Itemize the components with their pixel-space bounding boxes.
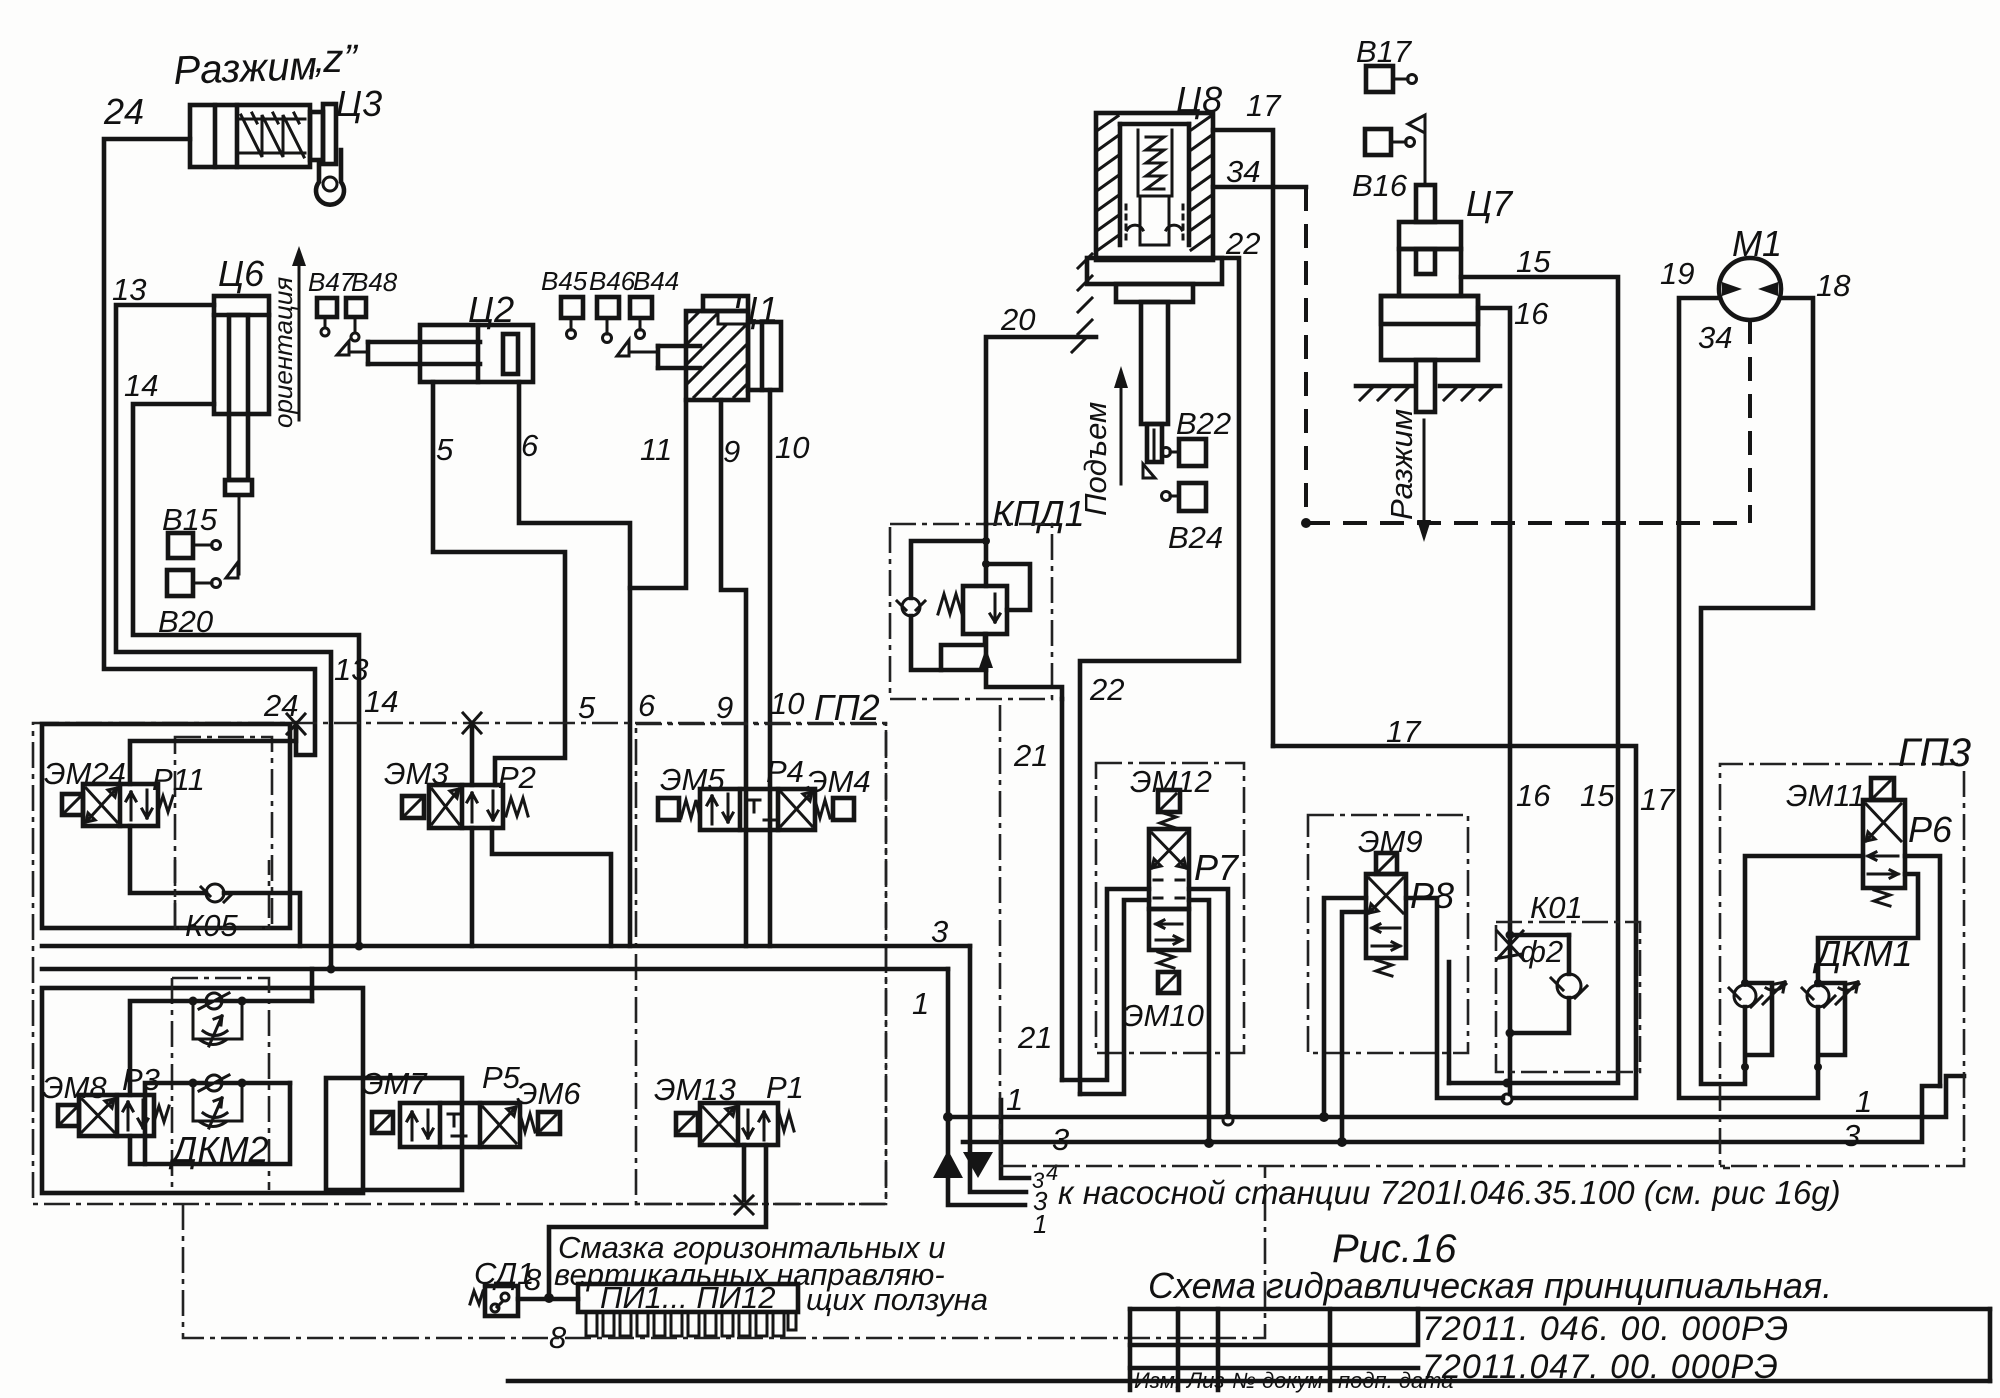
node X R1 <box>735 1196 753 1214</box>
wire 20 <box>986 337 1096 524</box>
contact flag C7 rod <box>1408 115 1425 185</box>
node DKM2 lower <box>189 1079 198 1088</box>
wire 34 dashed from M1 <box>1748 320 1752 523</box>
node <box>982 537 990 545</box>
svg-text:9: 9 <box>723 434 740 469</box>
throttle F2 <box>1497 931 1523 959</box>
svg-text:Р8: Р8 <box>1410 875 1454 916</box>
box KPD1 dash-dot <box>890 524 1052 699</box>
contact flag C8 rod <box>1143 430 1155 478</box>
wire 34 dashed horizontal <box>1306 521 1750 525</box>
solenoid EM13 <box>676 1113 698 1135</box>
wire 21 dash-dot vertical <box>999 705 1002 1160</box>
box DKM2 dash-dot <box>172 978 269 1190</box>
valve R3 <box>79 1095 154 1136</box>
spring R4 right <box>815 800 830 818</box>
wire R1 right down <box>549 1145 766 1298</box>
valve R4 <box>700 789 815 830</box>
cylinder C3 <box>190 105 310 167</box>
svg-text:ГП2: ГП2 <box>814 687 880 728</box>
svg-text:Ц3: Ц3 <box>336 83 382 124</box>
ground hatch C7 <box>1356 386 1500 400</box>
wire bus1 corner down <box>946 969 951 1117</box>
svg-text:ДКМ1: ДКМ1 <box>1812 933 1913 974</box>
switch B17 <box>1366 66 1417 92</box>
node X 24 <box>287 714 305 734</box>
svg-text:1: 1 <box>1855 1084 1872 1119</box>
check valve K05 <box>201 884 233 902</box>
switch B48 <box>346 298 366 341</box>
wire KPD1 left loop <box>911 541 986 670</box>
svg-text:В24: В24 <box>1168 520 1223 555</box>
box F2 K01 solid <box>1447 962 1452 1083</box>
spring R7 bottom <box>1158 952 1174 968</box>
wire R8 left loop <box>1324 898 1366 1117</box>
svg-text:В46: В46 <box>589 266 636 296</box>
throttle-check DKM1 right <box>1802 982 1859 1007</box>
box P7 dash-dot <box>1096 763 1244 1053</box>
node DKM1 bottoms <box>1741 1063 1749 1071</box>
wire R11 bottom to K05 <box>130 826 206 893</box>
svg-text:В16: В16 <box>1352 168 1408 203</box>
svg-text:ЭМ5: ЭМ5 <box>660 762 725 797</box>
svg-text:Р4: Р4 <box>766 754 804 789</box>
node bus1 <box>943 1112 953 1122</box>
svg-text:Р5: Р5 <box>482 1060 521 1095</box>
svg-text:24: 24 <box>103 91 144 132</box>
wire R2 bottom loop <box>492 828 611 946</box>
svg-text:5: 5 <box>436 432 454 467</box>
spring R6 bottom <box>1874 890 1890 906</box>
switch B24 <box>1162 483 1207 511</box>
solenoid EM8 <box>58 1105 79 1126</box>
throttle-check DKM1 left <box>1729 976 1788 1007</box>
wire port1 <box>948 1117 1025 1205</box>
switch B44 <box>630 297 652 339</box>
wire 5 <box>433 382 565 785</box>
wire KPD1 inner lower <box>941 634 985 670</box>
svg-text:ЭМ8: ЭМ8 <box>42 1070 107 1105</box>
wire 17 horizontal <box>1273 746 1636 1098</box>
wire 16 <box>1478 308 1510 1094</box>
svg-text:В22: В22 <box>1176 406 1231 441</box>
svg-text:72011. 046. 00. 000РЭ: 72011. 046. 00. 000РЭ <box>1422 1310 1789 1348</box>
svg-text:15: 15 <box>1516 244 1551 279</box>
svg-text:21: 21 <box>1017 1020 1052 1055</box>
arrow razzhim <box>1417 420 1431 542</box>
solenoid EM24 <box>62 794 83 815</box>
cylinder C2 <box>368 325 533 382</box>
solenoid EM12 <box>1158 790 1180 812</box>
pump arrow down <box>963 1152 993 1178</box>
dash-dot separator above note <box>1000 764 1964 1166</box>
svg-text:щих ползуна: щих ползуна <box>806 1282 988 1317</box>
svg-text:Р6: Р6 <box>1908 809 1953 850</box>
svg-text:3: 3 <box>931 914 948 949</box>
svg-text:34: 34 <box>1226 154 1260 189</box>
svg-text:Разжим: Разжим <box>173 44 318 93</box>
wire 14 <box>133 404 359 946</box>
svg-text:ЭМ12: ЭМ12 <box>1130 764 1212 799</box>
wire R7 right loop outer <box>1189 889 1228 1114</box>
svg-text:10: 10 <box>770 686 804 721</box>
solenoid EM4 <box>833 798 854 820</box>
svg-text:6: 6 <box>521 428 539 463</box>
wire port34 <box>1001 1100 1029 1178</box>
pump arrow up <box>933 1150 963 1178</box>
valve R2 <box>429 785 503 828</box>
svg-text:3: 3 <box>1843 1118 1860 1153</box>
box R5 outer <box>326 1078 462 1190</box>
wire R7 left loop outer <box>1062 889 1149 1080</box>
contact flag C1 <box>617 340 658 356</box>
solenoid EM7 <box>372 1112 401 1133</box>
lubricator block PI1..PI12 <box>578 1284 798 1336</box>
wire 10 <box>768 390 773 946</box>
spring R11 <box>158 796 173 812</box>
box K01 dash-dot <box>1496 922 1640 1072</box>
switch B20 <box>167 570 221 596</box>
svg-text:„z”: „z” <box>308 37 358 81</box>
wire K01 bottom circle <box>1502 1094 1512 1104</box>
wire R2 center down <box>470 828 475 946</box>
svg-text:18: 18 <box>1816 268 1851 303</box>
svg-text:4: 4 <box>1046 1160 1058 1185</box>
svg-text:ф2: ф2 <box>1520 934 1563 969</box>
switch B46 <box>597 297 619 343</box>
svg-text:19: 19 <box>1660 256 1694 291</box>
svg-text:8: 8 <box>524 1262 542 1297</box>
box K05 dash-dot <box>175 860 269 928</box>
svg-text:20: 20 <box>1000 302 1035 337</box>
spring KPD1 <box>938 594 962 614</box>
svg-text:15: 15 <box>1580 778 1615 813</box>
wire DKM1 right branch <box>1818 983 1845 1067</box>
spring R3 <box>154 1106 169 1122</box>
box GP3 dash-dot <box>1720 764 1958 1168</box>
spring R8 bottom <box>1376 960 1392 976</box>
check valve KPD1 <box>897 598 925 616</box>
valve R11 <box>83 784 158 826</box>
svg-text:ГП3: ГП3 <box>1898 731 1971 775</box>
svg-text:1: 1 <box>912 986 929 1021</box>
bus 3 lower <box>963 1086 1940 1142</box>
switch B16 <box>1365 129 1415 155</box>
valve R5 <box>400 1103 520 1147</box>
svg-text:Р1: Р1 <box>766 1070 804 1105</box>
wire K01 inner <box>1510 935 1569 1033</box>
switch B22 <box>1162 439 1207 466</box>
arrow up on KPD1 drain <box>979 648 993 668</box>
pressure switch SD1 <box>470 1286 518 1316</box>
throttle-check DKM2 lower <box>193 1075 242 1128</box>
wire 19 <box>1679 298 1818 1098</box>
bus 1 upper <box>42 967 948 972</box>
svg-text:1: 1 <box>1006 1082 1023 1117</box>
wire R3 top port to upper throttle <box>130 1001 193 1095</box>
svg-text:16: 16 <box>1514 296 1549 331</box>
svg-text:14: 14 <box>124 368 158 403</box>
bus 3 upper <box>42 944 970 949</box>
svg-text:13: 13 <box>334 652 368 687</box>
node K01 top <box>1506 931 1515 940</box>
wire R6 left port <box>1745 856 1863 983</box>
spring R4 left <box>681 800 700 818</box>
svg-text:к насосной станции 7201l.046.3: к насосной станции 7201l.046.35.100 (см.… <box>1058 1174 1841 1211</box>
title block frame <box>1130 1309 1990 1390</box>
svg-text:В47: В47 <box>308 267 356 297</box>
wire 21 inner vertical <box>1060 699 1065 1080</box>
node 34 junction <box>1301 518 1311 528</box>
svg-text:Р3: Р3 <box>122 1062 160 1097</box>
svg-text:К01: К01 <box>1530 890 1583 925</box>
solenoid EM3 <box>402 796 424 818</box>
svg-text:22: 22 <box>1089 672 1124 707</box>
contact flag C6 rod <box>226 497 239 578</box>
wire KPD1 right loop <box>986 564 1030 610</box>
check valve K01 <box>1551 974 1587 998</box>
valve R1 <box>700 1103 778 1145</box>
wire K05 right <box>224 893 300 946</box>
svg-text:3: 3 <box>1052 1122 1069 1157</box>
cylinder C8 <box>1087 113 1222 462</box>
svg-text:ЭМ6: ЭМ6 <box>516 1076 581 1111</box>
wire 17 top <box>1213 130 1273 746</box>
solenoid EM5 <box>658 798 679 820</box>
svg-text:13: 13 <box>112 272 146 307</box>
svg-text:К05: К05 <box>185 908 239 943</box>
svg-text:6: 6 <box>638 688 656 723</box>
solenoid EM9 <box>1376 853 1397 874</box>
spring R2 <box>506 798 528 816</box>
wire SD1 to PI <box>518 1297 578 1302</box>
svg-text:Разжим: Разжим <box>1384 409 1419 520</box>
wire lower throttle left <box>145 1083 193 1164</box>
svg-text:10: 10 <box>775 430 809 465</box>
svg-text:В20: В20 <box>158 604 213 639</box>
wire 34 dashed vertical <box>1304 187 1308 523</box>
contact flag C2 <box>337 341 368 355</box>
wire 18 <box>1701 298 1813 1084</box>
svg-text:34: 34 <box>1698 320 1732 355</box>
svg-text:ЭМ11: ЭМ11 <box>1786 778 1866 813</box>
box left manifold lower <box>42 988 363 1193</box>
wire riser right of DKM2 <box>310 969 315 1001</box>
box P8 dash-dot <box>1308 815 1468 1053</box>
arrow orientacia <box>292 246 306 420</box>
svg-text:16: 16 <box>1516 778 1551 813</box>
relief valve KPD1 <box>963 586 1007 634</box>
node DKM1 tops <box>1741 979 1749 987</box>
cylinder C1 <box>658 296 781 400</box>
node X on line 5 <box>463 713 481 733</box>
spring R1 <box>779 1113 794 1131</box>
switch B45 <box>561 297 583 339</box>
solenoid EM6 <box>538 1112 560 1134</box>
svg-text:КПД1: КПД1 <box>992 493 1085 534</box>
wire R11 top to X24 <box>130 723 296 784</box>
wire upper throttle right <box>242 999 312 1004</box>
wire 34 stub <box>1213 185 1306 190</box>
arrow podem <box>1114 366 1128 484</box>
throttle-check DKM2 upper <box>193 984 242 1046</box>
svg-text:Р7: Р7 <box>1194 847 1240 888</box>
wire 20 inside KPD1 <box>986 524 1062 699</box>
solenoid EM10 <box>1158 972 1179 993</box>
dash-dot bottom tail of GP2 <box>183 1166 1265 1338</box>
wire bus3 corner down <box>970 946 1026 1192</box>
wire 22 <box>1080 258 1239 1094</box>
svg-text:9: 9 <box>716 690 733 725</box>
svg-text:17: 17 <box>1640 782 1676 817</box>
wire 24 from C3 <box>104 139 315 755</box>
svg-text:ЭМ7: ЭМ7 <box>362 1066 428 1101</box>
node DKM2 upper <box>189 997 198 1006</box>
spring R7 top <box>1160 812 1176 828</box>
wire R1 down to X <box>742 1145 747 1200</box>
valve R6 <box>1863 800 1905 888</box>
cylinder C7 <box>1381 185 1478 412</box>
box GP2 mid sub dash-dot <box>636 724 886 1204</box>
svg-text:5: 5 <box>578 690 596 725</box>
wire lower throttle right <box>242 1081 290 1086</box>
wire R7 right loop inner <box>1189 900 1209 1143</box>
box left manifold upper <box>42 724 290 928</box>
wire R3 bottom port loop <box>130 1083 290 1164</box>
svg-text:17: 17 <box>1386 714 1422 749</box>
wire 5 into P2 <box>470 723 475 785</box>
wire 11 <box>630 400 686 588</box>
svg-text:ЭМ10: ЭМ10 <box>1122 998 1204 1033</box>
svg-text:24: 24 <box>263 688 298 723</box>
cylinder C3 rod clevis <box>310 104 344 205</box>
svg-text:Ц6: Ц6 <box>218 253 265 294</box>
motor M1 <box>1719 258 1781 320</box>
svg-text:11: 11 <box>640 432 672 467</box>
wire R7 left loop inner <box>1080 900 1149 1094</box>
svg-text:В44: В44 <box>633 266 679 296</box>
cylinder C6 <box>214 296 269 495</box>
svg-text:В45: В45 <box>541 266 588 296</box>
box GP2 dash-dot boundary <box>33 723 886 1204</box>
solenoid EM11 <box>1871 778 1894 800</box>
wire 15 <box>1449 277 1618 1083</box>
wire 6 <box>519 382 630 946</box>
svg-text:Ц7: Ц7 <box>1466 183 1514 224</box>
bus 1 lower <box>948 1076 1964 1117</box>
wall hatch left of C8 <box>1072 254 1092 352</box>
svg-text:ориентация: ориентация <box>268 277 298 428</box>
wire R8 right loop <box>1406 898 1503 1098</box>
svg-text:17: 17 <box>1246 88 1282 123</box>
box P11 sub dash-dot <box>175 737 272 928</box>
wire 9 <box>721 400 746 946</box>
spring EM6 <box>520 1114 535 1132</box>
valve R7 <box>1149 829 1189 950</box>
wire 13 <box>116 305 331 969</box>
svg-text:В48: В48 <box>351 267 398 297</box>
svg-text:21: 21 <box>1013 738 1048 773</box>
switch B47 <box>317 298 337 336</box>
svg-text:Схема гидравлическая принципиа: Схема гидравлическая принципиальная. <box>1148 1265 1832 1306</box>
valve R8 <box>1366 874 1406 958</box>
switch B15 <box>168 533 221 558</box>
node SD1 <box>544 1293 554 1303</box>
svg-text:14: 14 <box>364 684 398 719</box>
